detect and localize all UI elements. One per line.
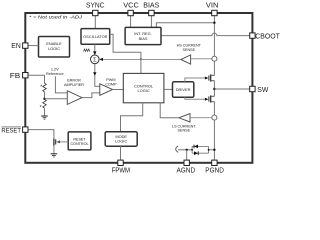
comparator PWM	[100, 84, 113, 96]
junction PGND	[213, 149, 215, 151]
svg-text:EN: EN	[11, 41, 21, 50]
wire LS sense out to control logic	[160, 103, 179, 118]
wire reset fet source	[53, 146, 55, 154]
amp LS current sense	[179, 114, 190, 122]
wire SYNC to oscillator	[94, 16, 96, 29]
svg-text:RESET: RESET	[73, 137, 86, 141]
transistor reset fet	[54, 139, 68, 146]
ramp symbol	[84, 49, 90, 52]
wire VIN rail upper	[213, 16, 215, 57]
pad connection arc	[176, 146, 179, 153]
svg-text:CBOOT: CBOOT	[255, 32, 280, 41]
pin VCC	[123, 1, 139, 16]
pin VIN	[206, 1, 219, 16]
pin EN	[11, 41, 28, 50]
svg-text:*: *	[40, 105, 42, 111]
wire control logic to driver	[164, 88, 173, 90]
wire reference to error amp	[55, 76, 67, 93]
svg-text:LOGIC: LOGIC	[138, 88, 150, 93]
wire driver to HS gate	[185, 78, 206, 82]
wire oscillator to control logic	[110, 34, 141, 73]
wire RESET pin to fet drain	[28, 130, 54, 139]
wire HS sense to summer with arrow	[103, 58, 181, 60]
svg-text:SENSE: SENSE	[178, 129, 191, 133]
pin BIAS	[143, 1, 159, 16]
svg-text:OSCILLATOR: OSCILLATOR	[83, 34, 107, 39]
svg-text:DRIVER: DRIVER	[176, 87, 191, 92]
pin FPWM	[112, 160, 130, 174]
wire HS sense input	[191, 58, 212, 60]
wire LS source rail	[213, 102, 215, 115]
op-amp error amplifier	[67, 91, 82, 105]
IC boundary box U1	[25, 13, 252, 163]
svg-text:LOGIC: LOGIC	[115, 139, 127, 144]
svg-text:1.2V: 1.2V	[51, 67, 59, 71]
wire oscillator to summer with arrow	[94, 44, 96, 52]
driver box	[173, 82, 194, 98]
wire LS sense input	[190, 117, 212, 119]
resistor R1 (upper feedback)	[43, 83, 47, 92]
wire LS rail to PGND	[213, 120, 215, 160]
diode D2 (points right)	[194, 151, 198, 155]
wire VCC to int reg	[130, 16, 132, 28]
summing node	[91, 55, 100, 64]
wire tap to error amp	[45, 98, 68, 100]
svg-text:CONTROL: CONTROL	[70, 142, 88, 146]
oscillator box	[81, 29, 110, 45]
svg-text:VIN: VIN	[206, 1, 219, 10]
resistor R2 (lower feedback)	[43, 99, 47, 108]
diode pair frame	[192, 146, 214, 153]
control logic box	[123, 73, 164, 102]
ground FB divider	[41, 116, 48, 119]
svg-text:AGND: AGND	[177, 165, 196, 174]
svg-text:Reference: Reference	[46, 72, 64, 76]
pin FB	[10, 71, 28, 80]
sense tap LS	[212, 115, 217, 120]
svg-text:FPWM: FPWM	[112, 165, 130, 174]
wire R1 to tap	[44, 92, 46, 99]
int reg bias box	[125, 27, 161, 44]
svg-text:VCC: VCC	[123, 1, 139, 10]
pin PGND	[205, 160, 224, 174]
pin SW	[250, 85, 269, 94]
wire error amp out to PWM comp	[82, 93, 100, 98]
svg-text:AMPLIFIER: AMPLIFIER	[64, 83, 84, 87]
wire PWM comp to control logic	[113, 89, 124, 91]
wire BIAS to int reg	[150, 16, 152, 28]
wire SW node	[213, 81, 215, 97]
enable logic box	[39, 37, 70, 58]
junction FB tap	[43, 98, 45, 100]
transistor LS fet	[209, 95, 215, 102]
svg-text:SYNC: SYNC	[86, 1, 105, 10]
svg-text:COMP: COMP	[105, 82, 117, 86]
wire int reg feed from VIN	[156, 23, 214, 28]
svg-text:SENSE: SENSE	[183, 48, 196, 52]
sense tap HS	[212, 56, 217, 61]
amp HS current sense	[181, 55, 191, 64]
junction SW	[213, 88, 215, 90]
svg-text:LOGIC: LOGIC	[48, 46, 60, 51]
svg-text:PGND: PGND	[205, 165, 224, 174]
diode D1 (points left)	[194, 145, 198, 149]
wire int reg to CBOOT with hop	[161, 33, 250, 36]
svg-text:BIAS: BIAS	[143, 1, 159, 10]
svg-text:* = Not used in -ADJ: * = Not used in -ADJ	[29, 15, 83, 20]
wire EN to enable logic	[28, 45, 39, 47]
junction VIN feed	[213, 22, 215, 24]
pin SYNC	[86, 1, 105, 16]
svg-text:FB: FB	[10, 71, 21, 80]
svg-text:SW: SW	[257, 85, 268, 94]
svg-text:BIAS: BIAS	[139, 36, 148, 41]
wire mode logic to FPWM	[120, 146, 122, 160]
wire SW to pin	[214, 88, 249, 90]
svg-text:ERROR: ERROR	[67, 78, 81, 82]
junction diode right	[208, 149, 210, 151]
wire VIN rail to HS fet	[213, 61, 215, 75]
wire control logic to mode logic	[121, 103, 143, 132]
ground reset fet	[51, 154, 58, 157]
junction AGND	[186, 149, 188, 151]
svg-text:RESET: RESET	[1, 128, 21, 135]
pin AGND	[177, 160, 196, 174]
pin RESET	[1, 127, 28, 135]
wire FB pin to divider	[28, 75, 45, 83]
reset control box	[68, 132, 91, 150]
wire summer to PWM comp with arrow	[95, 64, 100, 87]
junction osc/sense crossing	[140, 58, 142, 60]
junction diode left	[191, 149, 193, 151]
wire R2 to ground	[44, 108, 46, 116]
wire driver to LS gate	[185, 97, 206, 99]
wire AGND net with pad arc	[178, 149, 192, 151]
pin CBOOT	[250, 32, 281, 41]
transistor HS fet	[209, 74, 215, 81]
mode logic box	[105, 132, 137, 147]
wire AGND stub	[186, 150, 188, 160]
svg-text:*: *	[40, 85, 42, 91]
